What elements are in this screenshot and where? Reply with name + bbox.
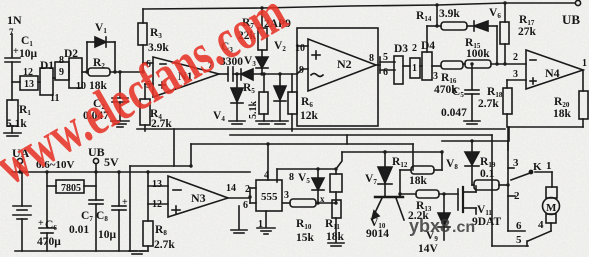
svg-text:5V: 5V: [104, 155, 119, 169]
svg-text:2.7k: 2.7k: [478, 98, 499, 110]
svg-text:3: 3: [433, 71, 438, 82]
svg-text:18k: 18k: [553, 108, 572, 120]
svg-text:7805: 7805: [61, 183, 81, 194]
svg-text:18k: 18k: [326, 231, 345, 243]
svg-text:15k: 15k: [296, 232, 315, 244]
svg-text:.cn: .cn: [452, 219, 475, 236]
svg-text:12: 12: [23, 67, 33, 78]
svg-text:2: 2: [412, 43, 417, 54]
svg-text:D4: D4: [421, 40, 435, 52]
svg-text:0.047: 0.047: [441, 107, 467, 119]
svg-text:10: 10: [295, 43, 305, 54]
svg-text:2.7k: 2.7k: [154, 239, 175, 251]
svg-text:7: 7: [9, 27, 14, 37]
svg-text:5: 5: [383, 52, 388, 63]
svg-text:27k: 27k: [518, 26, 537, 38]
svg-text:ybx8: ybx8: [409, 216, 450, 236]
svg-text:1: 1: [258, 219, 263, 230]
svg-text:13: 13: [24, 79, 34, 90]
svg-text:10μ: 10μ: [98, 229, 117, 241]
svg-text:6: 6: [383, 67, 388, 78]
svg-text:UB: UB: [562, 12, 580, 27]
svg-text:18k: 18k: [409, 175, 428, 187]
svg-text:8: 8: [369, 53, 374, 64]
svg-text:10μ: 10μ: [19, 48, 38, 60]
svg-text:N4: N4: [545, 66, 560, 80]
svg-text:100k: 100k: [466, 48, 490, 60]
svg-text:2: 2: [245, 184, 250, 195]
svg-text:1: 1: [546, 160, 552, 172]
svg-text:N2: N2: [337, 57, 352, 71]
svg-text:3: 3: [513, 69, 518, 80]
svg-text:6: 6: [516, 220, 522, 232]
svg-text:6: 6: [243, 200, 248, 211]
svg-text:D1: D1: [40, 60, 54, 72]
svg-text:D2: D2: [64, 48, 78, 60]
svg-text:12k: 12k: [300, 110, 319, 122]
svg-text:x: x: [320, 194, 325, 204]
svg-text:13: 13: [152, 179, 162, 190]
svg-text:9: 9: [59, 67, 64, 78]
svg-text:1: 1: [412, 63, 417, 74]
svg-text:1N: 1N: [7, 13, 22, 27]
svg-text:4: 4: [264, 170, 269, 181]
svg-text:470μ: 470μ: [37, 236, 61, 248]
svg-text:8: 8: [289, 172, 294, 183]
svg-text:555: 555: [261, 191, 278, 203]
svg-text:14: 14: [226, 183, 236, 194]
svg-text:9014: 9014: [366, 228, 389, 240]
svg-text:M: M: [546, 202, 557, 214]
svg-text:9: 9: [299, 65, 304, 76]
svg-text:9DAT: 9DAT: [472, 216, 502, 228]
svg-text:3: 3: [513, 157, 519, 169]
svg-text:14V: 14V: [418, 243, 439, 255]
svg-text:+: +: [13, 46, 19, 57]
svg-text:D3: D3: [394, 43, 408, 55]
svg-text:1: 1: [582, 58, 587, 69]
svg-text:3: 3: [284, 190, 289, 201]
svg-text:5.1k: 5.1k: [248, 101, 259, 120]
svg-text:2.7k: 2.7k: [151, 118, 172, 130]
svg-text:0.1: 0.1: [480, 168, 495, 180]
svg-text:5: 5: [516, 234, 522, 246]
svg-text:12: 12: [152, 199, 162, 210]
svg-text:3.9k: 3.9k: [439, 8, 460, 20]
svg-text:+: +: [122, 197, 128, 208]
svg-text:0.01: 0.01: [69, 224, 89, 236]
svg-text:2: 2: [513, 52, 518, 63]
svg-text:+: +: [38, 218, 44, 229]
svg-text:2: 2: [514, 190, 520, 202]
svg-text:N3: N3: [191, 191, 206, 205]
svg-text:K: K: [533, 161, 542, 173]
svg-text:4: 4: [538, 219, 544, 231]
